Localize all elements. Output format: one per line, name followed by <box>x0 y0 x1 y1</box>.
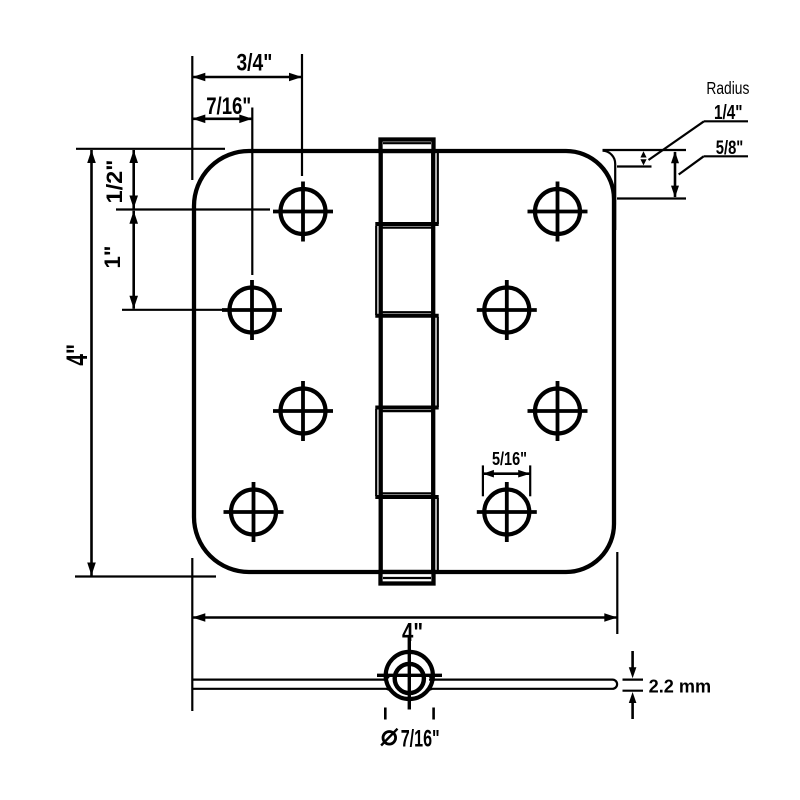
side view left leaf top <box>193 678 389 680</box>
svg-text:1/2": 1/2" <box>102 160 127 204</box>
barrel left edge <box>379 151 383 572</box>
dim line 1/2 <box>129 150 138 209</box>
svg-text:1": 1" <box>100 246 125 269</box>
dim line 5/16 <box>483 470 530 478</box>
ext line 3/4 right <box>301 54 303 176</box>
knuckle 3 back edge <box>437 317 439 407</box>
side view knuckle outer circle <box>386 652 433 699</box>
dim line 1 <box>129 211 138 309</box>
knuckle joint 3 <box>375 406 438 410</box>
side view pin circle <box>395 664 424 693</box>
svg-text:4": 4" <box>61 344 94 366</box>
knuckle joint 4 <box>375 495 438 499</box>
side view vertical center line <box>408 635 411 710</box>
1/4in radius corner profile <box>603 151 616 230</box>
corner ref line middle <box>617 165 652 167</box>
leader 1/4 <box>649 121 705 160</box>
barrel bottom cap <box>381 572 434 584</box>
corner ref line top <box>603 149 687 151</box>
ext line top-left <box>76 148 225 150</box>
screw hole 3L <box>273 381 333 441</box>
ext line 3/4 left <box>191 56 193 180</box>
knuckle 2 back edge <box>375 226 377 315</box>
screw hole 4L <box>224 482 284 542</box>
thickness tick bottom <box>623 690 644 692</box>
thickness arrow bottom <box>629 692 637 719</box>
ext line bottom 4 right <box>616 552 618 634</box>
svg-text:3/4": 3/4" <box>237 51 273 77</box>
side view right leaf top <box>429 678 613 680</box>
dim line 7/16 <box>192 115 252 124</box>
side view left leaf bottom <box>193 688 391 690</box>
dim line 3/4 <box>192 73 302 82</box>
svg-text:1/4": 1/4" <box>714 101 743 124</box>
svg-text:2.2 mm: 2.2 mm <box>649 677 712 697</box>
svg-text:Radius: Radius <box>706 78 749 98</box>
svg-text:4": 4" <box>402 617 423 647</box>
svg-text:7/16": 7/16" <box>401 726 440 753</box>
hinge plate outline <box>194 151 614 572</box>
corner ref line bottom <box>617 197 686 199</box>
screw hole 4R <box>477 482 537 542</box>
diameter tick right <box>432 708 435 720</box>
ext line 7/16 right <box>251 108 253 276</box>
5/16 tick left <box>482 465 484 496</box>
thickness tick top <box>623 678 644 680</box>
screw hole 2L <box>222 280 282 340</box>
ext line hole row 2 <box>122 309 222 311</box>
screw hole 2R <box>477 280 537 340</box>
dim line 4 left <box>87 150 96 576</box>
knuckle 1 back edge <box>437 153 439 224</box>
diameter symbol <box>381 729 397 746</box>
barrel right edge <box>431 151 435 572</box>
side view horizontal center line <box>377 674 442 677</box>
svg-text:7/16": 7/16" <box>206 94 251 120</box>
dim line 4 bottom <box>192 613 617 622</box>
ext line bottom 4 left <box>191 558 193 711</box>
side view right leaf bottom <box>429 688 613 690</box>
side view leaf-knuckle fillet top-left <box>384 676 390 680</box>
5/16 tick right <box>529 465 531 496</box>
thickness arrow top <box>629 651 637 678</box>
side view leaf-knuckle fillet bottom-right <box>426 689 432 692</box>
dim line 5/8 <box>671 151 679 197</box>
ext line bottom-left <box>75 575 216 577</box>
svg-text:5/8": 5/8" <box>716 138 744 159</box>
knuckle 4 back edge <box>375 409 377 496</box>
screw hole 3R <box>528 381 588 441</box>
knuckle 5 back edge <box>437 498 439 571</box>
knuckle joint 2 <box>375 314 438 318</box>
screw hole 1L <box>273 182 333 242</box>
diameter tick left <box>384 708 387 720</box>
side view right leaf end cap <box>613 680 618 689</box>
dim arrows 1/4 <box>640 151 646 165</box>
side view leaf-knuckle fillet bottom-left <box>387 689 393 692</box>
barrel top cap <box>381 140 434 152</box>
side view leaf-knuckle fillet top-right <box>429 676 435 680</box>
screw hole 1R <box>528 182 588 242</box>
leader 5/8 <box>679 156 704 174</box>
knuckle joint 1 <box>375 222 438 226</box>
ext line radius tangent <box>116 208 270 210</box>
svg-text:5/16": 5/16" <box>492 448 527 469</box>
